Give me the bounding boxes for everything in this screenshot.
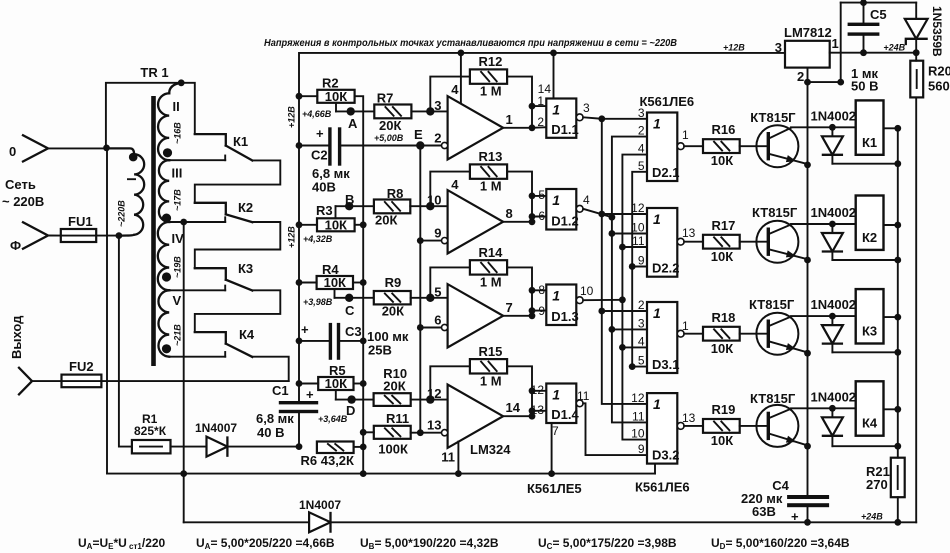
- node tap III/IV to ground drop: [180, 219, 187, 226]
- op-amp U1.1 (LM324 section 1): [448, 96, 504, 159]
- svg-text:11: 11: [632, 409, 645, 423]
- svg-text:11: 11: [632, 234, 645, 248]
- svg-text:6: 6: [538, 209, 545, 223]
- svg-text:UА= 5,00*205/220 =4,66В: UА= 5,00*205/220 =4,66В: [196, 536, 335, 551]
- svg-text:1: 1: [682, 128, 689, 142]
- wire K2 output step: [195, 222, 280, 268]
- svg-text:К561ЛЕ6: К561ЛЕ6: [640, 94, 695, 109]
- svg-text:R13: R13: [479, 149, 503, 164]
- svg-text:+: +: [791, 509, 799, 524]
- wire C1 bottom to R6 node: [298, 413, 300, 446]
- wire C2 to node E: [341, 145, 420, 147]
- svg-text:50 В: 50 В: [851, 79, 878, 94]
- phase dot winding II: [163, 148, 172, 157]
- svg-text:К561ЛЕ5: К561ЛЕ5: [527, 481, 582, 496]
- svg-text:Сеть: Сеть: [5, 177, 36, 192]
- svg-text:Ф: Ф: [10, 238, 21, 253]
- svg-text:R16: R16: [712, 122, 736, 137]
- svg-text:9: 9: [538, 304, 545, 318]
- svg-text:20К: 20К: [375, 213, 397, 228]
- phase dot winding III: [162, 214, 171, 223]
- svg-text:20К: 20К: [382, 304, 404, 319]
- svg-text:20К: 20К: [383, 379, 405, 394]
- node junction 0-rail / primary top: [103, 145, 110, 152]
- svg-text:К3: К3: [862, 324, 877, 339]
- node B: [345, 202, 353, 210]
- svg-text:10К: 10К: [325, 376, 347, 391]
- svg-text:8: 8: [538, 283, 545, 297]
- svg-text:R18: R18: [712, 310, 736, 325]
- svg-text:20К: 20К: [379, 118, 401, 133]
- svg-text:12: 12: [631, 201, 645, 215]
- wire D3.1 pin4 stub: [622, 346, 647, 348]
- wire R1 feed rail: [119, 236, 132, 447]
- capacitor C1 6,8мк 40В: [279, 401, 318, 404]
- svg-text:1N4007: 1N4007: [195, 421, 237, 435]
- node ground/transformer-common junction: [180, 470, 187, 477]
- node E column pin9: [417, 237, 424, 244]
- svg-text:5: 5: [638, 159, 645, 173]
- svg-text:+: +: [306, 387, 314, 402]
- svg-text:1N4007: 1N4007: [299, 498, 341, 512]
- svg-text:FU2: FU2: [69, 359, 94, 374]
- svg-text:1: 1: [653, 211, 661, 227]
- svg-text:9: 9: [638, 442, 645, 456]
- wire node A to R7: [336, 110, 374, 112]
- wire U1.2 output: [503, 221, 532, 223]
- svg-text:К2: К2: [238, 200, 253, 215]
- svg-text:0: 0: [9, 144, 16, 159]
- svg-text:5: 5: [538, 188, 545, 202]
- svg-text:D1.4: D1.4: [551, 407, 579, 422]
- svg-text:825*К: 825*К: [134, 424, 167, 438]
- wire R5 left to rail: [299, 383, 318, 385]
- svg-text:2: 2: [797, 69, 804, 84]
- svg-text:5: 5: [434, 284, 441, 299]
- svg-text:1: 1: [682, 319, 689, 333]
- resistor R14 1M feedback: [430, 267, 470, 297]
- svg-text:R17: R17: [712, 218, 736, 233]
- svg-text:10К: 10К: [324, 275, 346, 290]
- phase dot primary winding: [129, 153, 138, 162]
- wire R2 right to pot-end rail: [355, 96, 364, 473]
- svg-text:13: 13: [682, 411, 696, 425]
- svg-text:С2: С2: [311, 147, 328, 162]
- svg-text:11: 11: [577, 389, 590, 403]
- wire 0-rail vertical: [106, 148, 108, 474]
- node E: [416, 141, 424, 149]
- relay contact K3: [195, 268, 226, 280]
- node pot-end rail to ground: [360, 470, 367, 477]
- wire K4 output to FU2 line: [252, 357, 288, 381]
- wire R9 to op-amp pin5: [411, 297, 448, 299]
- svg-text:LM7812: LM7812: [784, 25, 832, 40]
- wire D2.2 pin11 stub: [622, 246, 647, 248]
- svg-text:10К: 10К: [325, 89, 347, 104]
- svg-text:25В: 25В: [368, 342, 392, 357]
- svg-text:10К: 10К: [711, 153, 733, 168]
- zener diode VD1 1N5359B: [915, 3, 917, 19]
- wire D3.2 output to R19: [684, 425, 703, 427]
- wire D2.1 output to R16: [684, 145, 703, 147]
- svg-text:Напряжения в контрольных точка: Напряжения в контрольных точках устанавл…: [264, 38, 678, 49]
- wire +24V node: [830, 52, 917, 54]
- wire D3.2 ground stub: [654, 464, 656, 474]
- svg-text:R14: R14: [479, 245, 504, 260]
- svg-text:4: 4: [638, 142, 645, 156]
- resistor R15 1M feedback: [430, 366, 470, 399]
- wire U1.3 output: [503, 315, 532, 317]
- svg-text:КТ815Г: КТ815Г: [750, 110, 796, 125]
- wire D3.1 output to R18: [684, 333, 703, 335]
- svg-text:+4,66В: +4,66В: [302, 109, 332, 119]
- transformer core: [151, 96, 156, 366]
- primary winding I of TR1: [107, 148, 145, 235]
- wire E to pin6: [420, 327, 444, 329]
- wire +12V top rail: [299, 53, 785, 97]
- svg-text:10К: 10К: [711, 433, 733, 448]
- svg-text:10К: 10К: [711, 341, 733, 356]
- svg-text:2: 2: [638, 298, 645, 312]
- svg-text:R19: R19: [712, 402, 736, 417]
- svg-text:КТ815Г: КТ815Г: [749, 297, 795, 312]
- svg-text:10К: 10К: [325, 217, 347, 232]
- wire FU2 output to K4 selector output: [101, 380, 288, 382]
- svg-text:FU1: FU1: [68, 214, 93, 229]
- wire R4 left to rail: [299, 282, 317, 284]
- svg-text:+5,00В: +5,00В: [374, 133, 404, 143]
- svg-text:+: +: [316, 126, 324, 141]
- phase dot winding IV: [162, 272, 171, 281]
- svg-text:UВ= 5,00*190/220 =4,32В: UВ= 5,00*190/220 =4,32В: [360, 536, 499, 551]
- wire ground to top rail: [840, 3, 842, 83]
- svg-text:3: 3: [583, 101, 590, 115]
- svg-text:~ 220В: ~ 220В: [2, 194, 44, 209]
- svg-text:R9: R9: [385, 275, 402, 290]
- svg-text:С1: С1: [272, 383, 289, 398]
- resistor R20 560: [910, 61, 923, 98]
- svg-text:К1: К1: [233, 134, 248, 149]
- svg-text:К1: К1: [862, 135, 877, 150]
- svg-text:UС= 5,00*175/220 =3,98В: UС= 5,00*175/220 =3,98В: [538, 536, 677, 551]
- wire ground bus horizontal: [107, 473, 655, 475]
- wire R3 right to pot-end rail: [355, 224, 364, 226]
- svg-text:III: III: [172, 166, 183, 181]
- wire bus column 2: [612, 137, 647, 423]
- svg-text:R15: R15: [479, 344, 503, 359]
- svg-text:7: 7: [552, 424, 559, 438]
- svg-text:1N4002: 1N4002: [811, 108, 857, 123]
- svg-text:13: 13: [682, 226, 696, 240]
- wire top ground rail: [841, 2, 917, 4]
- tap wire V bottom to K4 contact: [169, 356, 225, 358]
- wire D2.2 pin12 stub: [602, 213, 647, 215]
- terminal 0 (mains neutral input): [23, 135, 48, 161]
- svg-text:LM324: LM324: [470, 442, 511, 457]
- logic gate D1.1 (NOR as inverter): [546, 99, 576, 138]
- svg-text:К2: К2: [862, 230, 877, 245]
- svg-text:1: 1: [552, 288, 560, 304]
- svg-text:1: 1: [832, 36, 839, 51]
- svg-text:2: 2: [537, 115, 544, 129]
- wire bus column 3: [622, 155, 647, 440]
- svg-text:63В: 63В: [752, 504, 776, 519]
- svg-text:V: V: [173, 293, 182, 308]
- logic gate D1.2: [546, 189, 576, 230]
- svg-text:D3.1: D3.1: [652, 357, 679, 372]
- wire U1.1 output: [503, 127, 532, 129]
- resistor R13 1M feedback: [430, 172, 470, 207]
- svg-text:К4: К4: [239, 327, 255, 342]
- resistor R12 1M feedback: [430, 77, 470, 112]
- svg-text:R3: R3: [316, 203, 333, 218]
- svg-text:R11: R11: [386, 411, 409, 426]
- svg-text:1 М: 1 М: [480, 179, 502, 194]
- svg-text:КТ815Г: КТ815Г: [752, 205, 798, 220]
- wire R8 to op-amp pin10: [410, 205, 447, 207]
- pin 14 power stub D1.1: [553, 53, 555, 99]
- svg-text:+3,98В: +3,98В: [303, 297, 333, 307]
- wire node C to R9: [335, 297, 374, 299]
- wire node B to R8: [336, 205, 374, 207]
- wire K3 output step: [195, 290, 280, 332]
- tap wire II/III to K1 contact: [169, 159, 225, 161]
- capacitor C4 220мк 63В: [787, 495, 829, 499]
- svg-text:1: 1: [653, 305, 661, 321]
- relay contact K2: [195, 203, 226, 215]
- svg-text:13: 13: [427, 418, 441, 433]
- wire bus column 4: [632, 172, 647, 367]
- svg-text:9: 9: [638, 254, 645, 268]
- svg-text:1 М: 1 М: [480, 373, 502, 388]
- svg-text:4: 4: [638, 334, 645, 348]
- svg-text:4: 4: [451, 82, 459, 97]
- svg-text:~16В: ~16В: [173, 122, 183, 144]
- tap wire III/IV to K2 contact: [169, 221, 225, 223]
- wire C3 right to pot-end rail: [340, 340, 363, 342]
- wire D2.1 pin3 stub: [602, 118, 647, 120]
- pin 11 ground stub U1.4: [457, 442, 459, 474]
- svg-text:10: 10: [580, 284, 594, 298]
- pin 4 power stub U1.1: [460, 53, 462, 104]
- wire R3 left to rail: [299, 224, 317, 226]
- svg-text:D1.2: D1.2: [551, 214, 578, 229]
- svg-text:1: 1: [506, 112, 513, 127]
- svg-text:В: В: [345, 192, 354, 207]
- wire R20 to +24V bottom rail: [915, 97, 917, 522]
- node TR1 top tap: [178, 79, 185, 86]
- svg-text:3: 3: [775, 40, 782, 55]
- wire D2.2 output to R17: [684, 241, 702, 243]
- wire D3.1 pin3 stub: [612, 328, 647, 330]
- wire D1.4 output to D3.2 pin9: [583, 403, 647, 455]
- node E column pin6: [417, 324, 424, 331]
- svg-text:+: +: [301, 322, 309, 337]
- secondary winding II: [169, 83, 181, 94]
- node junction FU1 / primary bottom / R1 rail: [116, 232, 123, 239]
- wire R6 right to rail: [354, 446, 364, 448]
- svg-text:К561ЛЕ6: К561ЛЕ6: [635, 480, 690, 495]
- svg-text:1: 1: [537, 94, 544, 108]
- svg-text:С5: С5: [870, 7, 887, 22]
- svg-text:10К: 10К: [711, 249, 733, 264]
- wire +12V divider rail: [298, 97, 300, 403]
- wire D1.1 output to bus col1: [583, 117, 602, 119]
- svg-text:UD= 5,00*160/220 =3,64В: UD= 5,00*160/220 =3,64В: [711, 536, 850, 551]
- op-amp U1.2 (LM324 section 2): [448, 190, 504, 253]
- svg-text:7: 7: [506, 300, 513, 315]
- node D: [347, 395, 355, 403]
- svg-text:D1.3: D1.3: [551, 309, 578, 324]
- svg-text:40В: 40В: [312, 180, 336, 195]
- wire R4 right to pot-end rail: [353, 282, 363, 284]
- op-amp U1.3 (LM324 section 3): [448, 284, 504, 347]
- svg-text:IV: IV: [172, 231, 185, 246]
- svg-text:4: 4: [583, 193, 590, 207]
- terminal Выход arrow: [19, 368, 32, 395]
- wire bus column 1: [602, 119, 647, 404]
- svg-text:R6 43,2К: R6 43,2К: [301, 453, 355, 468]
- svg-text:К3: К3: [238, 261, 253, 276]
- svg-text:I: I: [124, 177, 139, 181]
- svg-text:КТ815Г: КТ815Г: [750, 391, 796, 406]
- relay contact K4: [195, 332, 226, 344]
- logic gate D2.1 (4-input NOR): [647, 113, 677, 182]
- wire E to pin2: [420, 145, 444, 147]
- wire E to pin9: [420, 240, 444, 242]
- svg-text:С: С: [345, 303, 355, 318]
- svg-text:1: 1: [552, 102, 560, 118]
- svg-text:1: 1: [653, 116, 661, 132]
- svg-text:1: 1: [552, 387, 560, 403]
- logic gate D3.2: [647, 393, 677, 464]
- wire transformer common drop: [183, 222, 185, 522]
- wire D1.2 output to bus col2: [583, 209, 612, 217]
- svg-text:С3: С3: [345, 324, 362, 339]
- svg-text:14: 14: [506, 400, 521, 415]
- wire TR1 top lead: [106, 83, 181, 148]
- wire node D to R10: [336, 399, 374, 401]
- wire D2.2 pin9 stub: [632, 266, 647, 268]
- wire R11 right to pin13 node: [411, 432, 445, 434]
- svg-text:~17В: ~17В: [173, 189, 183, 211]
- logic gate D3.1: [647, 302, 677, 373]
- secondary winding V: [158, 290, 169, 356]
- svg-text:10: 10: [631, 427, 645, 441]
- svg-text:+24В: +24В: [861, 512, 883, 522]
- wire E column: [419, 146, 421, 433]
- node E column pin13: [417, 429, 424, 436]
- wire LM7812 pin2 ground: [808, 68, 841, 83]
- svg-text:А: А: [348, 116, 358, 131]
- svg-text:12: 12: [631, 391, 645, 405]
- wire R11 left to rail: [363, 431, 374, 433]
- wire D3.1 pin2 stub: [602, 310, 647, 312]
- svg-text:9: 9: [434, 226, 441, 241]
- svg-text:100К: 100К: [378, 442, 408, 457]
- wire U1.4 output: [503, 415, 532, 417]
- svg-text:8: 8: [506, 206, 513, 221]
- wire K1 output step: [195, 160, 280, 202]
- wire R10 to op-amp pin12: [411, 399, 448, 401]
- node C: [345, 294, 353, 302]
- svg-text:4: 4: [451, 177, 459, 192]
- op-amp U1.4 (LM324 section 4): [448, 385, 504, 448]
- svg-text:1: 1: [653, 396, 661, 412]
- svg-text:13: 13: [531, 403, 545, 417]
- wire emitter ground rail: [807, 82, 809, 495]
- pin 7 ground stub D1.4: [551, 423, 553, 474]
- svg-text:12: 12: [531, 383, 545, 397]
- svg-text:6: 6: [434, 313, 441, 328]
- svg-text:2: 2: [638, 124, 645, 138]
- svg-text:D: D: [346, 403, 355, 418]
- wire R5 right to pot-end rail: [354, 383, 364, 385]
- tap wire IV/V to K3 contact: [169, 289, 225, 291]
- secondary winding IV: [158, 222, 169, 290]
- svg-text:1N4002: 1N4002: [811, 205, 857, 220]
- secondary winding III: [159, 160, 169, 222]
- svg-text:D2.1: D2.1: [652, 165, 679, 180]
- svg-text:1N4002: 1N4002: [811, 389, 857, 404]
- logic gate D1.3: [546, 285, 576, 326]
- wire R7 to op-amp pin3: [411, 110, 447, 112]
- resistor R21 270: [891, 458, 905, 498]
- svg-text:1N5359В: 1N5359В: [930, 6, 944, 57]
- wire relay +24V feed rail: [897, 127, 899, 446]
- svg-text:Выход: Выход: [9, 315, 24, 359]
- svg-text:+4,32В: +4,32В: [303, 234, 333, 244]
- svg-text:R20: R20: [928, 64, 950, 79]
- svg-text:D1.1: D1.1: [551, 122, 578, 137]
- node A: [347, 107, 355, 115]
- svg-text:3: 3: [434, 98, 441, 113]
- wire D2.2 pin10 stub: [612, 233, 647, 235]
- svg-text:1: 1: [552, 192, 560, 208]
- svg-text:D2.2: D2.2: [652, 261, 679, 276]
- svg-text:1 М: 1 М: [480, 274, 502, 289]
- capacitor C3 100мк 25В: [299, 340, 329, 342]
- terminal Ф (mains phase input): [23, 222, 48, 248]
- svg-text:+24В: +24В: [883, 43, 905, 53]
- wire R1 to diode: [171, 446, 207, 448]
- wire bottom +24V return: [184, 521, 309, 523]
- logic gate D1.4: [546, 384, 576, 424]
- svg-text:R7: R7: [377, 91, 394, 106]
- svg-text:40 В: 40 В: [257, 425, 284, 440]
- resistor R6 43,2К: [317, 442, 354, 454]
- svg-text:+12В: +12В: [723, 43, 745, 53]
- svg-text:1N4002: 1N4002: [811, 297, 857, 312]
- wire D1.3 output to bus col3: [583, 299, 622, 301]
- svg-text:3: 3: [638, 316, 645, 330]
- svg-text:~19В: ~19В: [173, 256, 183, 278]
- svg-text:560: 560: [928, 79, 950, 94]
- capacitor C2 6,8мк 40В: [299, 145, 328, 147]
- svg-text:+12В: +12В: [287, 106, 297, 128]
- svg-text:~21В: ~21В: [173, 324, 183, 346]
- wire R2 left to rail: [299, 95, 317, 97]
- svg-text:10: 10: [631, 221, 645, 235]
- phase dot winding V: [162, 344, 171, 353]
- svg-text:5: 5: [638, 354, 645, 368]
- svg-text:II: II: [173, 99, 180, 114]
- svg-text:Е: Е: [414, 127, 423, 142]
- svg-text:R12: R12: [479, 54, 503, 69]
- svg-text:6,8 мк: 6,8 мк: [256, 411, 294, 426]
- svg-text:270: 270: [866, 477, 888, 492]
- relay contact K1: [181, 83, 195, 134]
